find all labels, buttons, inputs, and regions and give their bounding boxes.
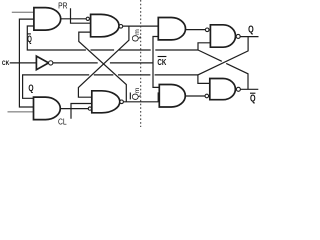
inverter U7 (clock) (36, 56, 48, 70)
svg-text:Q: Q (248, 25, 254, 36)
wire master cross-couple Qm down to U4 input (78, 26, 128, 97)
wire Qbar feedback mid segment (91, 49, 115, 51)
wire CK bus vertical to both steering gates (19, 19, 34, 107)
nand gate U6 (slave latch bottom) (210, 79, 236, 100)
wire PR vertical into master NAND U3 (71, 8, 91, 23)
svg-text:PR: PR (58, 2, 68, 11)
nand gate U4 (master latch bottom) (92, 91, 120, 113)
wire slave cross Qbar diagonal lower part and tap (226, 63, 248, 89)
wire Qbar feedback left segment (27, 26, 86, 50)
and gate G5 (slave top) (158, 18, 185, 40)
svg-text:CK: CK (2, 60, 10, 67)
wire K input (gray) (8, 111, 34, 113)
svg-text:Q: Q (250, 94, 256, 105)
wire Q feedback right segment (118, 74, 150, 76)
svg-text:CK: CK (157, 57, 166, 67)
svg-text:CL: CL (58, 116, 67, 126)
wire CKbar line right of X gap (110, 62, 153, 64)
and gate G2 (K steering) (34, 97, 61, 120)
wire U5 lower input stub from CKbar/Qbar node (198, 43, 210, 50)
and gate G6 (slave bottom) (159, 85, 185, 108)
nand gate U5 (slave latch top) (210, 25, 235, 47)
wire J input (gray) (12, 11, 34, 13)
nand gate U5 input bubble (205, 28, 209, 32)
nand gate U6 output bubble (236, 87, 240, 91)
label CKbar overline (158, 56, 167, 58)
wire CKbar vertical split to slave AND gates (153, 37, 159, 88)
wire U4 output Qbar-m with jog up into slave AND G6 (123, 93, 160, 102)
wire Qbar output line (240, 88, 258, 90)
wire Q feedback left segment (23, 75, 90, 98)
nand gate U5 output bubble (236, 34, 240, 38)
svg-text:Q: Q (27, 34, 32, 44)
nand gate U3 input bubble (86, 17, 89, 20)
nand gate U6 input bubble (205, 94, 209, 98)
wire Qbar feedback right segment (119, 49, 151, 51)
wire CK input (10, 62, 37, 64)
nand gate U4 input bubble (88, 107, 91, 110)
wire slave cross Q tap down to U6 input (198, 37, 248, 84)
wire AND G6 output to U6 bubble input (185, 95, 205, 97)
wire CKbar from inverter to divider (53, 62, 98, 64)
label Qbar-m overline (rotated) (129, 93, 131, 100)
wire AND G2 output to U4 bubble input (60, 108, 88, 110)
wire AND G1 output to U3 bubble input (60, 18, 86, 20)
wire master cross-couple Qbar-m up to U3 input (79, 32, 127, 102)
wire slave cross Qbar diagonal upper part (198, 50, 222, 61)
wire Q feedback mid segment (94, 74, 114, 76)
divider dashed line between master and slave (140, 0, 142, 127)
wire CL vertical into master NAND U4 (71, 104, 92, 119)
wire Qbar feedback segment right of CKbar riser (155, 49, 198, 51)
nand gate U4 output bubble (120, 100, 124, 104)
nand gate U3 (master latch top) (91, 14, 119, 36)
wire U3 output Qm to slave AND G5 (123, 25, 158, 27)
label Qbar output overline (250, 92, 255, 94)
svg-text:Q: Q (28, 83, 33, 94)
wire Q feedback segment right of CKbar riser (155, 74, 198, 76)
label Qbar overline (left) (27, 33, 31, 35)
inverter U7 bubble (49, 61, 53, 65)
wire Q output line (240, 36, 258, 38)
nand gate U3 output bubble (119, 25, 123, 29)
and gate G1 (J steering) (34, 8, 61, 31)
wire AND G5 output to U5 bubble input (185, 29, 205, 31)
